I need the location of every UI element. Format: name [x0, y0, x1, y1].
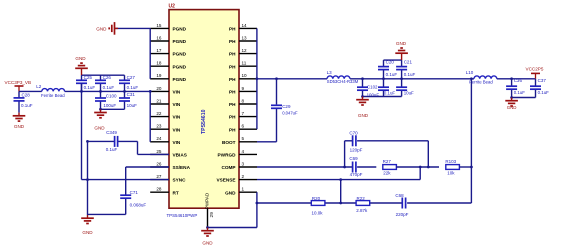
svg-text:0.1uF: 0.1uF — [514, 90, 526, 95]
svg-text:28: 28 — [156, 187, 162, 192]
svg-text:0.1uF: 0.1uF — [106, 147, 118, 152]
svg-text:19: 19 — [156, 73, 162, 78]
pin 7 name label PH — [229, 115, 236, 120]
svg-text:C71: C71 — [130, 190, 139, 195]
pin 22 name label VIN — [173, 115, 181, 120]
capacitor C31 10uF input — [119, 91, 137, 109]
pin 22 number label — [156, 111, 162, 116]
pin 28 name label RT — [173, 190, 179, 195]
wire COMP row — [257, 166, 430, 169]
wire VIN bus pins 20-24 — [149, 91, 151, 141]
svg-text:0.1uF: 0.1uF — [103, 85, 115, 90]
ground symbol above output caps — [395, 41, 408, 60]
pin 17 stub (PGND) — [150, 53, 169, 55]
pin 24 stub (VIN) — [150, 141, 169, 143]
svg-text:GND: GND — [75, 56, 86, 61]
svg-text:0.068uF: 0.068uF — [130, 202, 147, 207]
net label VCC2P5 — [526, 67, 544, 79]
svg-text:C31: C31 — [127, 92, 136, 97]
svg-text:PH: PH — [229, 64, 236, 69]
svg-text:20: 20 — [156, 86, 162, 91]
svg-text:4: 4 — [242, 149, 245, 154]
net label VCC3P3_VB — [5, 80, 32, 91]
pin 3 number label — [242, 161, 245, 166]
pin 23 stub (VIN) — [150, 128, 169, 130]
resistor R22 2.87k — [356, 196, 370, 213]
pin 18 stub (PGND) — [150, 65, 169, 67]
ground below output caps — [356, 97, 369, 119]
svg-text:10.0k: 10.0k — [312, 210, 324, 215]
svg-text:0.1uF: 0.1uF — [21, 103, 33, 108]
wire output rail — [350, 77, 474, 80]
pin 23 name label VIN — [173, 127, 181, 132]
svg-text:2: 2 — [242, 174, 245, 179]
svg-text:16: 16 — [156, 35, 162, 40]
svg-text:Ferrite Bead: Ferrite Bead — [41, 93, 65, 98]
svg-text:PGND: PGND — [173, 39, 187, 44]
wire output caps bottom node — [361, 95, 402, 98]
svg-text:GND: GND — [96, 26, 107, 31]
svg-text:0.047uF: 0.047uF — [282, 110, 298, 115]
pin 18 name label PGND — [173, 64, 187, 69]
svg-text:27: 27 — [156, 174, 162, 179]
svg-text:GND: GND — [225, 190, 236, 195]
ground symbol at pin 15 — [96, 22, 118, 35]
svg-text:13: 13 — [242, 35, 248, 40]
svg-text:0.1uF: 0.1uF — [384, 90, 396, 95]
resistor R27 22k — [383, 159, 439, 176]
svg-text:VSENSE: VSENSE — [216, 178, 235, 183]
svg-text:0.1uF: 0.1uF — [84, 85, 96, 90]
capacitor C25 0.1uF — [76, 75, 95, 92]
pin 4 name label PWRGD — [218, 153, 237, 158]
svg-text:21: 21 — [156, 98, 162, 103]
pin 23 number label — [156, 124, 162, 129]
pin 4 stub (PWRGD) — [239, 153, 257, 155]
pin 3 stub (COMP) — [239, 166, 257, 168]
svg-text:25: 25 — [156, 149, 162, 154]
ground symbol above input caps — [75, 56, 88, 75]
pin 8 name label PH — [229, 102, 236, 107]
pin 13 number label — [242, 35, 248, 40]
svg-text:PH: PH — [229, 52, 236, 57]
wire BOOT branch — [257, 79, 277, 142]
pin 10 stub (PH) — [239, 78, 257, 80]
svg-text:GND: GND — [82, 230, 93, 235]
pin 17 name label PGND — [173, 52, 187, 57]
pin 10 name label PH — [229, 77, 236, 82]
wire GND pin1 to powerpad — [206, 192, 258, 229]
inductor L2 ferrite bead — [36, 84, 65, 98]
pin 9 number label — [242, 86, 245, 91]
pin 22 stub (VIN) — [150, 116, 169, 118]
capacitor C349 0.1uF VBIAS bypass — [86, 130, 137, 152]
capacitor C100 100uF bulk input — [95, 91, 117, 109]
pin 3 name label COMP — [221, 165, 235, 170]
svg-text:L3: L3 — [327, 70, 333, 75]
capacitor C27 0.1uF — [119, 75, 138, 92]
svg-text:VBIAS: VBIAS — [173, 153, 187, 158]
pin 29 PWPAD stub — [207, 208, 209, 227]
op-amp U2 TPS54610PWP body — [169, 10, 239, 209]
svg-text:PGND: PGND — [173, 52, 187, 57]
ground below VCC2P5 caps — [505, 98, 518, 111]
svg-text:SD53CH4-R33M: SD53CH4-R33M — [327, 79, 359, 84]
wire PGND bus — [149, 28, 151, 78]
wire VSENSE row — [257, 167, 420, 181]
capacitor C20 0.1uF — [378, 60, 397, 79]
svg-text:C100: C100 — [106, 93, 117, 98]
wire PH output to inductor — [256, 77, 328, 80]
pin 25 name label VBIAS — [173, 153, 187, 158]
wire PH bus — [256, 28, 258, 129]
pin 11 number label — [242, 61, 247, 66]
svg-text:VCC2P5: VCC2P5 — [526, 67, 544, 72]
pin 2 name label VSENSE — [216, 178, 235, 183]
wire feedback from output rail — [470, 79, 473, 203]
capacitor C22 0.1uF — [378, 79, 395, 97]
svg-text:12: 12 — [242, 48, 248, 53]
svg-text:GND: GND — [507, 105, 517, 110]
svg-text:C36: C36 — [514, 78, 523, 83]
svg-text:C68: C68 — [395, 193, 404, 198]
pin 6 name label PH — [229, 127, 236, 132]
pin 7 stub (PH) — [239, 116, 257, 118]
svg-text:SS/ENA: SS/ENA — [173, 165, 191, 170]
svg-text:PH: PH — [229, 115, 236, 120]
pin 7 number label — [242, 111, 245, 116]
capacitor C69 470pF — [349, 156, 362, 177]
pin 13 stub (PH) — [239, 40, 257, 42]
svg-text:9: 9 — [242, 86, 245, 91]
svg-text:PGND: PGND — [173, 77, 187, 82]
pin 1 name label GND — [225, 190, 236, 195]
svg-text:C21: C21 — [404, 60, 413, 65]
capacitor C102 100uF output bulk — [357, 79, 379, 98]
pin 24 number label — [156, 136, 162, 141]
pin 12 name label PH — [229, 52, 236, 57]
svg-text:C28: C28 — [22, 93, 31, 98]
svg-text:PWPAD: PWPAD — [205, 192, 210, 209]
U2 footprint label TPS54610PWP — [167, 213, 198, 218]
pin 27 name label SYNC — [173, 178, 187, 183]
svg-text:15: 15 — [156, 23, 162, 28]
pin 4 number label — [242, 149, 245, 154]
svg-text:C102: C102 — [367, 85, 378, 90]
capacitor C23 10uF — [396, 79, 414, 97]
pin 21 number label — [156, 98, 162, 103]
svg-text:0.1uF: 0.1uF — [538, 90, 550, 95]
svg-text:VIN: VIN — [173, 102, 181, 107]
pin 6 number label — [242, 124, 245, 129]
svg-text:8: 8 — [242, 98, 245, 103]
svg-text:24: 24 — [156, 136, 162, 141]
pin 21 name label VIN — [173, 102, 181, 107]
capacitor C21 0.1uF — [396, 60, 415, 79]
pin 9 stub (PH) — [239, 90, 257, 92]
pin 25 stub (VBIAS) — [150, 153, 169, 155]
svg-text:TPS54610PWP: TPS54610PWP — [167, 213, 198, 218]
svg-text:U2: U2 — [169, 4, 176, 10]
pin 17 number label — [156, 48, 162, 53]
U2 reference designator — [169, 4, 176, 10]
svg-text:120pF: 120pF — [350, 147, 363, 152]
ground below C100 — [94, 109, 107, 130]
wire VCC2P5 rail — [497, 77, 536, 80]
svg-text:R22: R22 — [357, 196, 366, 201]
pin 1 stub (GND) — [239, 191, 257, 193]
pin 27 stub (SYNC) — [150, 179, 169, 181]
pin 20 stub (VIN) — [150, 90, 169, 92]
svg-text:R103: R103 — [445, 159, 456, 164]
pin 2 stub (VSENSE) — [239, 179, 257, 181]
inductor L10 ferrite bead — [466, 70, 497, 85]
wire VSENSE divider drop — [340, 180, 342, 203]
svg-text:100uF: 100uF — [103, 103, 116, 108]
svg-text:C27: C27 — [127, 75, 136, 80]
svg-text:10uF: 10uF — [127, 103, 138, 108]
svg-text:1: 1 — [242, 187, 245, 192]
svg-text:7: 7 — [242, 111, 245, 116]
wire vertical gnd branch — [87, 141, 89, 215]
capacitor C68 220pF — [395, 193, 408, 217]
pin 5 number label — [242, 136, 245, 141]
wire VBIAS to pin 25 — [138, 141, 170, 154]
ground symbol lower left — [81, 215, 94, 235]
pin 29 number label — [209, 212, 215, 218]
svg-text:C349: C349 — [106, 130, 117, 135]
svg-text:VCC3P3_VB: VCC3P3_VB — [5, 80, 32, 85]
svg-text:22k: 22k — [383, 171, 391, 176]
pin 5 name label BOOT — [222, 140, 236, 145]
svg-text:PH: PH — [229, 27, 236, 32]
pin 20 number label — [156, 86, 162, 91]
svg-text:10: 10 — [242, 73, 248, 78]
svg-text:L2: L2 — [36, 84, 42, 89]
svg-text:0.1uF: 0.1uF — [127, 85, 139, 90]
svg-text:PH: PH — [229, 90, 236, 95]
pin 28 number label — [156, 187, 162, 192]
svg-text:PWRGD: PWRGD — [218, 153, 237, 158]
capacitor C37 0.1uF — [530, 78, 549, 97]
svg-text:R27: R27 — [383, 159, 392, 164]
U2 part name vertical text TPS54610 — [201, 109, 207, 134]
pin 24 name label VIN — [173, 140, 181, 145]
pin 14 name label PH — [229, 27, 236, 32]
ground below C28 — [13, 113, 26, 130]
svg-text:5: 5 — [242, 136, 245, 141]
svg-text:29: 29 — [209, 212, 215, 218]
pin 20 name label VIN — [173, 90, 181, 95]
svg-text:GND: GND — [94, 126, 105, 131]
svg-text:C25: C25 — [84, 75, 93, 80]
wire SYNC to gnd — [82, 178, 170, 181]
svg-text:10k: 10k — [447, 171, 455, 176]
wire vertical gnd drop to SYNC — [81, 83, 83, 179]
pin 18 number label — [156, 61, 162, 66]
pin 5 stub (BOOT) — [239, 141, 257, 143]
svg-text:L10: L10 — [466, 70, 474, 75]
svg-text:VIN: VIN — [173, 127, 181, 132]
pin 16 number label — [156, 35, 162, 40]
wire SS cap to ground — [88, 213, 126, 215]
svg-text:Ferrite Bead: Ferrite Bead — [469, 80, 493, 85]
pin 11 name label PH — [229, 64, 236, 69]
pin 10 number label — [242, 73, 248, 78]
svg-text:6: 6 — [242, 124, 245, 129]
svg-text:C69: C69 — [349, 156, 358, 161]
svg-text:VIN: VIN — [173, 115, 181, 120]
svg-text:VIN: VIN — [173, 90, 181, 95]
svg-text:C29: C29 — [282, 104, 291, 109]
wire output bypass top rail — [384, 59, 402, 61]
pin 19 number label — [156, 73, 162, 78]
pin 28 stub (RT) — [150, 191, 169, 193]
capacitor C71 0.068uF soft start — [120, 190, 146, 214]
svg-text:3: 3 — [242, 161, 245, 166]
svg-text:PGND: PGND — [173, 64, 187, 69]
svg-text:GND: GND — [396, 41, 407, 46]
pin 26 name label SS/ENA — [173, 165, 191, 170]
svg-text:C70: C70 — [349, 131, 358, 136]
pin 21 stub (VIN) — [150, 103, 169, 105]
svg-text:PH: PH — [229, 39, 236, 44]
pin 6 stub (PH) — [239, 128, 257, 130]
resistor R20 10.0k — [311, 196, 325, 215]
svg-text:PH: PH — [229, 102, 236, 107]
capacitor C26 0.1uF — [95, 75, 114, 92]
svg-text:11: 11 — [242, 61, 247, 66]
pin 1 number label — [242, 187, 245, 192]
wire SS/ENA from pin 26 — [126, 167, 169, 195]
svg-text:2.87k: 2.87k — [356, 208, 368, 213]
pin 8 number label — [242, 98, 245, 103]
svg-text:BOOT: BOOT — [222, 140, 236, 145]
pin 2 number label — [242, 174, 245, 179]
svg-text:22: 22 — [156, 111, 162, 116]
pin 15 number label — [156, 23, 162, 28]
pin 12 number label — [242, 48, 248, 53]
svg-text:17: 17 — [156, 48, 162, 53]
pin 25 number label — [156, 149, 162, 154]
capacitor C28 0.1uF input — [14, 91, 33, 112]
pin 11 stub (PH) — [239, 65, 257, 67]
svg-text:10uF: 10uF — [404, 90, 414, 95]
svg-text:SYNC: SYNC — [173, 178, 187, 183]
wire VCC2P5 caps bottom node — [510, 96, 535, 99]
pin 19 name label PGND — [173, 77, 187, 82]
pin 8 stub (PH) — [239, 103, 257, 105]
svg-text:RT: RT — [173, 190, 179, 195]
pin 26 stub (SS/ENA) — [150, 166, 169, 168]
wire divider row — [257, 202, 472, 205]
pin 26 number label — [156, 161, 162, 166]
svg-text:26: 26 — [156, 161, 162, 166]
inductor L3 output — [327, 70, 359, 84]
svg-text:0.1uF: 0.1uF — [386, 72, 398, 77]
wire C70 branch — [345, 141, 429, 167]
pin 27 number label — [156, 174, 162, 179]
pin 13 name label PH — [229, 39, 236, 44]
U2 PWPAD pad label — [205, 192, 210, 209]
svg-text:PH: PH — [229, 77, 236, 82]
wire GND to pin 15 — [115, 27, 151, 29]
capacitor C29 0.047uF bootstrap — [271, 104, 298, 142]
svg-text:C26: C26 — [103, 75, 112, 80]
svg-text:470pF: 470pF — [350, 172, 363, 177]
svg-text:GND: GND — [202, 241, 213, 246]
pin 14 stub (PH) — [239, 27, 257, 29]
svg-text:C20: C20 — [386, 60, 395, 65]
svg-text:PGND: PGND — [173, 27, 187, 32]
pin 15 name label PGND — [173, 27, 187, 32]
svg-text:18: 18 — [156, 61, 162, 66]
svg-text:220pF: 220pF — [396, 212, 409, 217]
svg-text:COMP: COMP — [221, 165, 235, 170]
pin 19 stub (PGND) — [150, 78, 169, 80]
pin 16 name label PGND — [173, 39, 187, 44]
pin 12 stub (PH) — [239, 53, 257, 55]
svg-text:23: 23 — [156, 124, 162, 129]
wire input rail VCC3P3 to pin 20 — [19, 90, 152, 93]
capacitor C70 120pF — [349, 131, 362, 153]
pin 15 stub (PGND) — [150, 27, 169, 29]
svg-text:14: 14 — [242, 23, 248, 28]
svg-text:R20: R20 — [312, 196, 321, 201]
resistor R103 10k — [445, 159, 471, 176]
svg-text:VIN: VIN — [173, 140, 181, 145]
svg-text:C37: C37 — [538, 78, 547, 83]
svg-text:GND: GND — [14, 124, 25, 129]
capacitor C36 0.1uF — [506, 78, 525, 97]
wire input caps bottom node — [99, 108, 124, 111]
pin 14 number label — [242, 23, 248, 28]
svg-text:0.1uF: 0.1uF — [404, 72, 416, 77]
pin 16 stub (PGND) — [150, 40, 169, 42]
pin 9 name label PH — [229, 90, 236, 95]
svg-text:GND: GND — [358, 113, 369, 118]
svg-text:TPS54610: TPS54610 — [201, 109, 207, 134]
svg-text:PH: PH — [229, 127, 236, 132]
wire input bypass top rail — [82, 74, 125, 76]
ground below powerpad — [201, 228, 214, 246]
